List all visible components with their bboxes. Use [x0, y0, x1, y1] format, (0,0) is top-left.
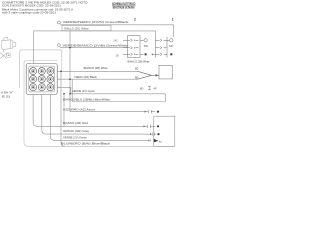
- svg-text:BLU/NERO (B/N) Blue/Black: BLU/NERO (B/N) Blue/Black: [61, 141, 111, 145]
- svg-text:8D: 8D: [135, 66, 138, 70]
- svg-text:34C: 34C: [144, 45, 149, 48]
- title underline: [112, 5, 136, 7]
- wire bus A to bottom: [61, 71, 65, 146]
- svg-text:VERDE (2V) Green: VERDE (2V) Green: [72, 89, 96, 93]
- switch component box: [159, 65, 172, 79]
- terminal ring VERDE/NERO: [57, 21, 60, 24]
- svg-text:E 2): E 2): [2, 94, 10, 98]
- bottom right box: [154, 116, 175, 146]
- connector body outer square: [26, 63, 57, 94]
- connector body inner square: [29, 66, 55, 92]
- row H ground + arrow symbol: [146, 139, 150, 142]
- svg-text:8D: 8D: [140, 87, 143, 91]
- right group terminals: [170, 39, 173, 42]
- switch arrowhead: [155, 74, 159, 76]
- wire row G GRIGIO: [42, 95, 148, 135]
- frame inner big enclosure: [24, 60, 175, 146]
- svg-text:NERO (2N) Black: NERO (2N) Black: [74, 75, 97, 79]
- left box contacts: [123, 39, 144, 56]
- svg-text:2: 2: [134, 18, 136, 22]
- wire row E AZZURRO: [70, 25, 142, 112]
- switch changeover: [137, 71, 159, 79]
- wire row C VERDE green step: [57, 87, 165, 94]
- svg-text:1: 1: [172, 18, 174, 22]
- right group contacts: [152, 39, 170, 56]
- svg-text:BIANCO (2B) White: BIANCO (2B) White: [84, 66, 109, 70]
- svg-text:VERDE/BIANCO (2V/B) Green/Whit: VERDE/BIANCO (2V/B) Green/White: [63, 43, 130, 47]
- wire row B NERO black: [57, 78, 137, 80]
- svg-text:Electrical scheme: Electrical scheme: [113, 5, 135, 9]
- svg-text:AZZURRO (AZ) Azure: AZZURRO (AZ) Azure: [63, 107, 96, 111]
- svg-text:ROSSO (2R) Red: ROSSO (2R) Red: [63, 121, 89, 125]
- junction dots: [60, 47, 71, 95]
- wire row A BIANCO white: [57, 70, 137, 72]
- svg-text:34C: 34C: [169, 45, 174, 48]
- wire row D BIANCO/BLU: [72, 79, 165, 101]
- wire VERDE/BIANCO row: [60, 47, 127, 49]
- svg-text:BIANCO/BLU (2B/BL) Blue/White: BIANCO/BLU (2B/BL) Blue/White: [63, 97, 111, 101]
- svg-text:24C: 24C: [114, 39, 119, 42]
- svg-text:VERDE (2V) Green: VERDE (2V) Green: [63, 135, 88, 139]
- svg-text:2B: 2B: [116, 55, 119, 58]
- right connector rails: [156, 37, 168, 58]
- row G contact symbol: [148, 133, 156, 136]
- row E contact symbol: [142, 110, 155, 113]
- connector pins 3x3: [30, 68, 54, 91]
- svg-text:GIALLO (2G) Yellow: GIALLO (2G) Yellow: [64, 27, 89, 31]
- svg-text:4F: 4F: [153, 87, 156, 91]
- wire row F ROSSO: [33, 95, 141, 127]
- wire row H VERDE: [50, 95, 146, 141]
- wires: [33, 25, 173, 147]
- wire rowC-rowD right link: [164, 94, 166, 102]
- svg-text:BIANCO (2B) White: BIANCO (2B) White: [128, 59, 151, 63]
- connector block left box: [128, 36, 141, 58]
- svg-text:GRIGIO (GR) Gray: GRIGIO (GR) Gray: [63, 129, 90, 133]
- terminal ring VERDE/BIANCO: [57, 44, 60, 47]
- label GIALLO boxed: [62, 25, 111, 30]
- svg-text:with 3 male couplings code 22-: with 3 male couplings code 22-05-2101: [2, 10, 56, 14]
- left box terminals: [144, 39, 147, 42]
- wire VERDE/NERO row: [60, 25, 173, 37]
- frame outer: [20, 50, 62, 88]
- svg-text:VERDE/NERO (2V/N) Green/Black: VERDE/NERO (2V/N) Green/Black: [63, 20, 130, 24]
- row F contact symbol: [141, 125, 155, 128]
- wire GIALLO row: [34, 31, 156, 64]
- pictorial connector sketch: [0, 37, 16, 59]
